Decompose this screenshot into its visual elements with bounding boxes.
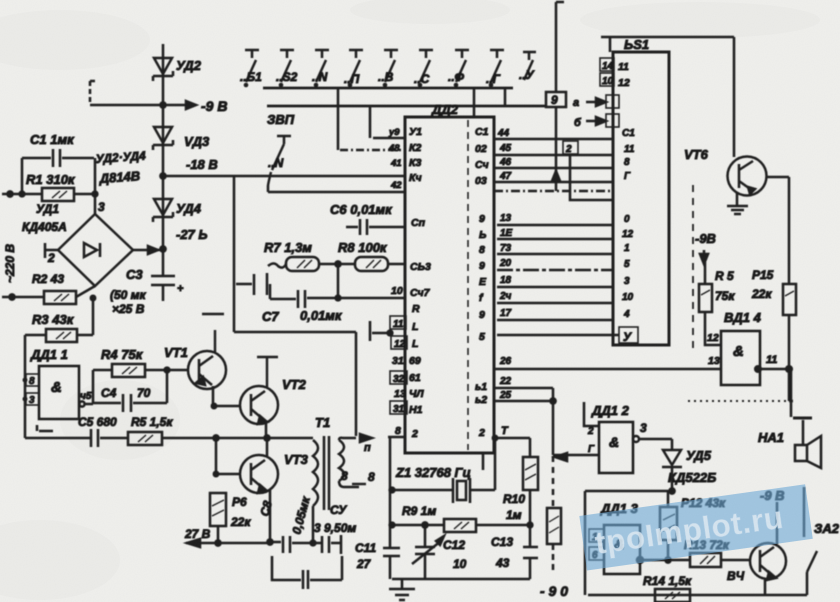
resistor R11 [547,508,561,544]
wire [337,88,340,150]
node [160,246,165,251]
switch S9 [519,52,536,82]
logic gate DD1.4 [721,331,760,385]
wire collector [776,502,779,544]
SECTION: DD2 IC [388,102,530,579]
gate output [633,436,639,442]
wire [319,263,355,266]
wire [94,158,97,214]
wire row 5 to y box [497,327,638,344]
wire arrow left [555,453,567,461]
transistor VT3 [240,455,278,493]
wire dashed left [688,400,789,402]
node -18V [160,173,165,178]
speaker HA1 [793,418,821,468]
wire [473,88,476,117]
wire bottom [25,437,91,440]
SECTION: VT6 right [684,37,796,417]
wire to DD1.2 input [553,454,599,457]
wire rail [585,490,672,493]
quartz Z1 [453,478,470,503]
logic gate DD1.3 [604,525,640,574]
wire ZVP bus [268,191,405,194]
wire stub [609,37,612,52]
wire [504,88,507,106]
wire row 18 [497,275,630,287]
SECTION: oscillator Z1 [383,438,568,600]
pin 32 box [390,371,407,385]
wire emitter [265,421,268,438]
node 9 box [546,92,566,107]
wire emitter [764,578,767,595]
capacitor C12 trimmer [412,525,444,579]
capacitor C3 [151,249,175,301]
ground [389,579,415,600]
switch S1 [240,50,262,84]
wire collector rail [202,314,224,352]
transistor VT2 [240,386,278,424]
wire row 17 [497,308,630,320]
transformer core [324,436,329,510]
resistor R1 [42,188,74,201]
wire [162,105,165,176]
junction dots [244,83,494,88]
capacitor C1 [22,149,94,167]
wire T1 primary bottom [312,506,315,543]
resistor R13 [690,553,721,567]
wire collector [266,438,269,456]
wire emitter [269,490,272,542]
wire [392,489,453,492]
resistor R10 [523,438,538,525]
wire [552,388,555,455]
wire row 46 [494,157,630,168]
wire [269,284,272,299]
wire gate output [760,368,789,371]
logic gate DD1.1 [39,366,79,419]
resistor R5 [128,432,162,445]
wire row 20 [497,258,630,270]
wire [2,193,42,196]
wire quartz right riser [494,438,497,490]
wire [234,331,356,334]
capacitor [236,273,267,295]
wire base [766,176,789,179]
pin 3 box [26,393,39,406]
wire [25,334,93,337]
pin box top [589,529,604,543]
bridge rectifier VD1 [58,214,133,286]
wire VT3 base drop [216,438,241,474]
switch S8 [486,50,504,86]
transistor VT1 [188,351,226,389]
wire secondary bottom [339,481,359,487]
pin 12 box [391,336,407,350]
resistor R3 [46,329,77,342]
wire output [639,439,672,450]
pin box bottom [589,547,604,561]
pin labels right column [475,126,489,439]
wire row 45 [494,143,635,155]
wire pin T [494,437,530,440]
wire top rail [601,36,734,39]
wire -27V feed [186,542,270,545]
logic gate DD1.2 [599,422,633,473]
capacitor C9 [313,535,341,554]
wire row 73 [497,243,630,254]
wire [470,489,495,492]
wire [162,176,165,248]
wire bottom rail [588,572,807,595]
switch S5 [378,50,398,84]
SECTION: RC network [234,138,405,436]
capacitor C13 [523,525,538,579]
wire [93,369,112,372]
wire row C1 [494,128,635,139]
wire collector T [257,357,278,387]
wire [555,107,558,191]
wire [476,524,530,527]
SECTION: HG1 display [494,37,734,352]
resistor R6 [210,493,226,526]
wire [671,467,674,491]
pin 31 box [390,401,407,415]
diode VD4 [153,199,173,222]
gate output node [637,557,643,563]
switch S3 [312,50,329,84]
wire output terminal [803,487,806,537]
wire [217,526,220,543]
wire bus2 [267,105,546,108]
wire [145,369,189,372]
resistor R2 [44,291,76,304]
wire [162,437,313,440]
wire [92,297,95,335]
SECTION: top switches [240,2,566,192]
wire [21,158,24,194]
switch ZVP [268,136,291,170]
wire arrow a [573,95,619,109]
wire arrow b [574,114,619,129]
wire pin8 [388,437,405,579]
wire gate tail [37,425,53,431]
wire emitter [736,192,739,206]
SECTION: amplifier VT1-VT3 [23,314,377,589]
capacitor C8 [270,536,313,553]
wire ZA2 lever [807,551,817,572]
wire secondary top [339,438,356,440]
wire [721,559,751,562]
wire [705,312,721,345]
wire [369,106,372,138]
wire down to T1 [355,332,358,436]
wire [552,544,555,570]
wire [90,104,163,107]
transistor VT5 [750,543,786,580]
wire pin b1 [494,387,553,390]
wire emitter [213,386,241,406]
capacitor C6 [346,219,405,235]
switch S2 [276,50,298,84]
wire ZVP to bus [268,172,271,192]
wire [789,369,793,417]
gate output [79,401,84,406]
capacitor C4 [93,370,167,412]
wire [388,263,405,266]
wire row 1E [497,228,634,240]
wire output node [85,370,93,404]
wire left drop [584,491,587,595]
wire base drop [788,177,791,284]
diode VD2 [153,58,173,81]
resistor R9 [444,519,476,532]
transformer T1 secondary [339,440,344,481]
SECTION: power supply left [2,44,405,438]
display HG1 body [613,52,669,345]
resistor R15 [783,284,796,315]
resistor R8 [355,257,388,271]
wire pin 26 long [494,368,721,371]
resistor R5b vertical [699,262,712,312]
wire DD1.1 left rail [24,335,27,438]
switch S7 [448,50,469,84]
pin numbers top left [388,127,402,191]
wire branch from -18V [233,177,236,332]
wire row 24 [497,291,634,303]
capacitor pin11-12 [370,321,390,341]
wire pin b2 [494,400,553,403]
transformer T1 primary [313,440,318,506]
wire bridge out [133,249,163,252]
pin 11 box [390,316,406,330]
resistor R4 [112,364,145,377]
wire [392,524,444,527]
wire ac input [45,243,58,258]
wire arrow [163,104,186,107]
wire dash-dot [340,149,405,152]
wire bottom bus [392,578,530,581]
pin box 10 [600,73,614,87]
resistor R12 [660,491,677,560]
diode VD3 [153,127,173,150]
capacitor C11v [383,548,400,556]
capacitor C10 [272,556,342,589]
capacitor C7 [270,290,405,308]
wire [162,44,165,105]
wire pin2 stub [482,453,485,470]
wire [2,296,44,299]
resistor R14 [655,589,690,602]
op-amp U1 DD2 body [405,117,494,453]
wire [90,81,98,105]
wire top vertical [556,2,564,92]
wire row dashdot [494,190,613,193]
pin 8 box [26,374,39,387]
wire -18V rail [163,175,405,178]
pin labels left column [409,126,431,440]
pin box 14 [600,58,614,72]
wire collector drop [733,37,736,157]
wire row 47 [494,171,631,182]
wire [76,286,95,297]
wire [337,264,340,298]
switch S6 [414,50,433,86]
wire dashed right [552,456,555,508]
wire [268,264,286,268]
diode VD5 [662,450,682,467]
display dashed edge [692,185,694,352]
wire down to ground [788,369,791,401]
switch S4 [344,50,363,86]
capacitor C5 [91,429,128,447]
SECTION: alarm DD1.2-DD1.4 [494,356,840,602]
watermark band [579,484,812,570]
wire [570,154,613,200]
wire arrow down [703,250,706,262]
wire input1 [584,402,599,426]
wire bus1 [263,87,513,90]
wire [74,193,95,196]
pin box 2 [563,141,578,155]
wire [788,315,791,369]
wire to DD2 pin [373,137,405,140]
wire row 13 [497,213,630,225]
transistor VT6 [728,157,767,196]
node dots [23,378,28,402]
ground [727,206,748,214]
DD2 divider [467,120,469,450]
wire output row [640,559,690,562]
resistor R7 [286,257,319,271]
node -9V [160,102,165,107]
